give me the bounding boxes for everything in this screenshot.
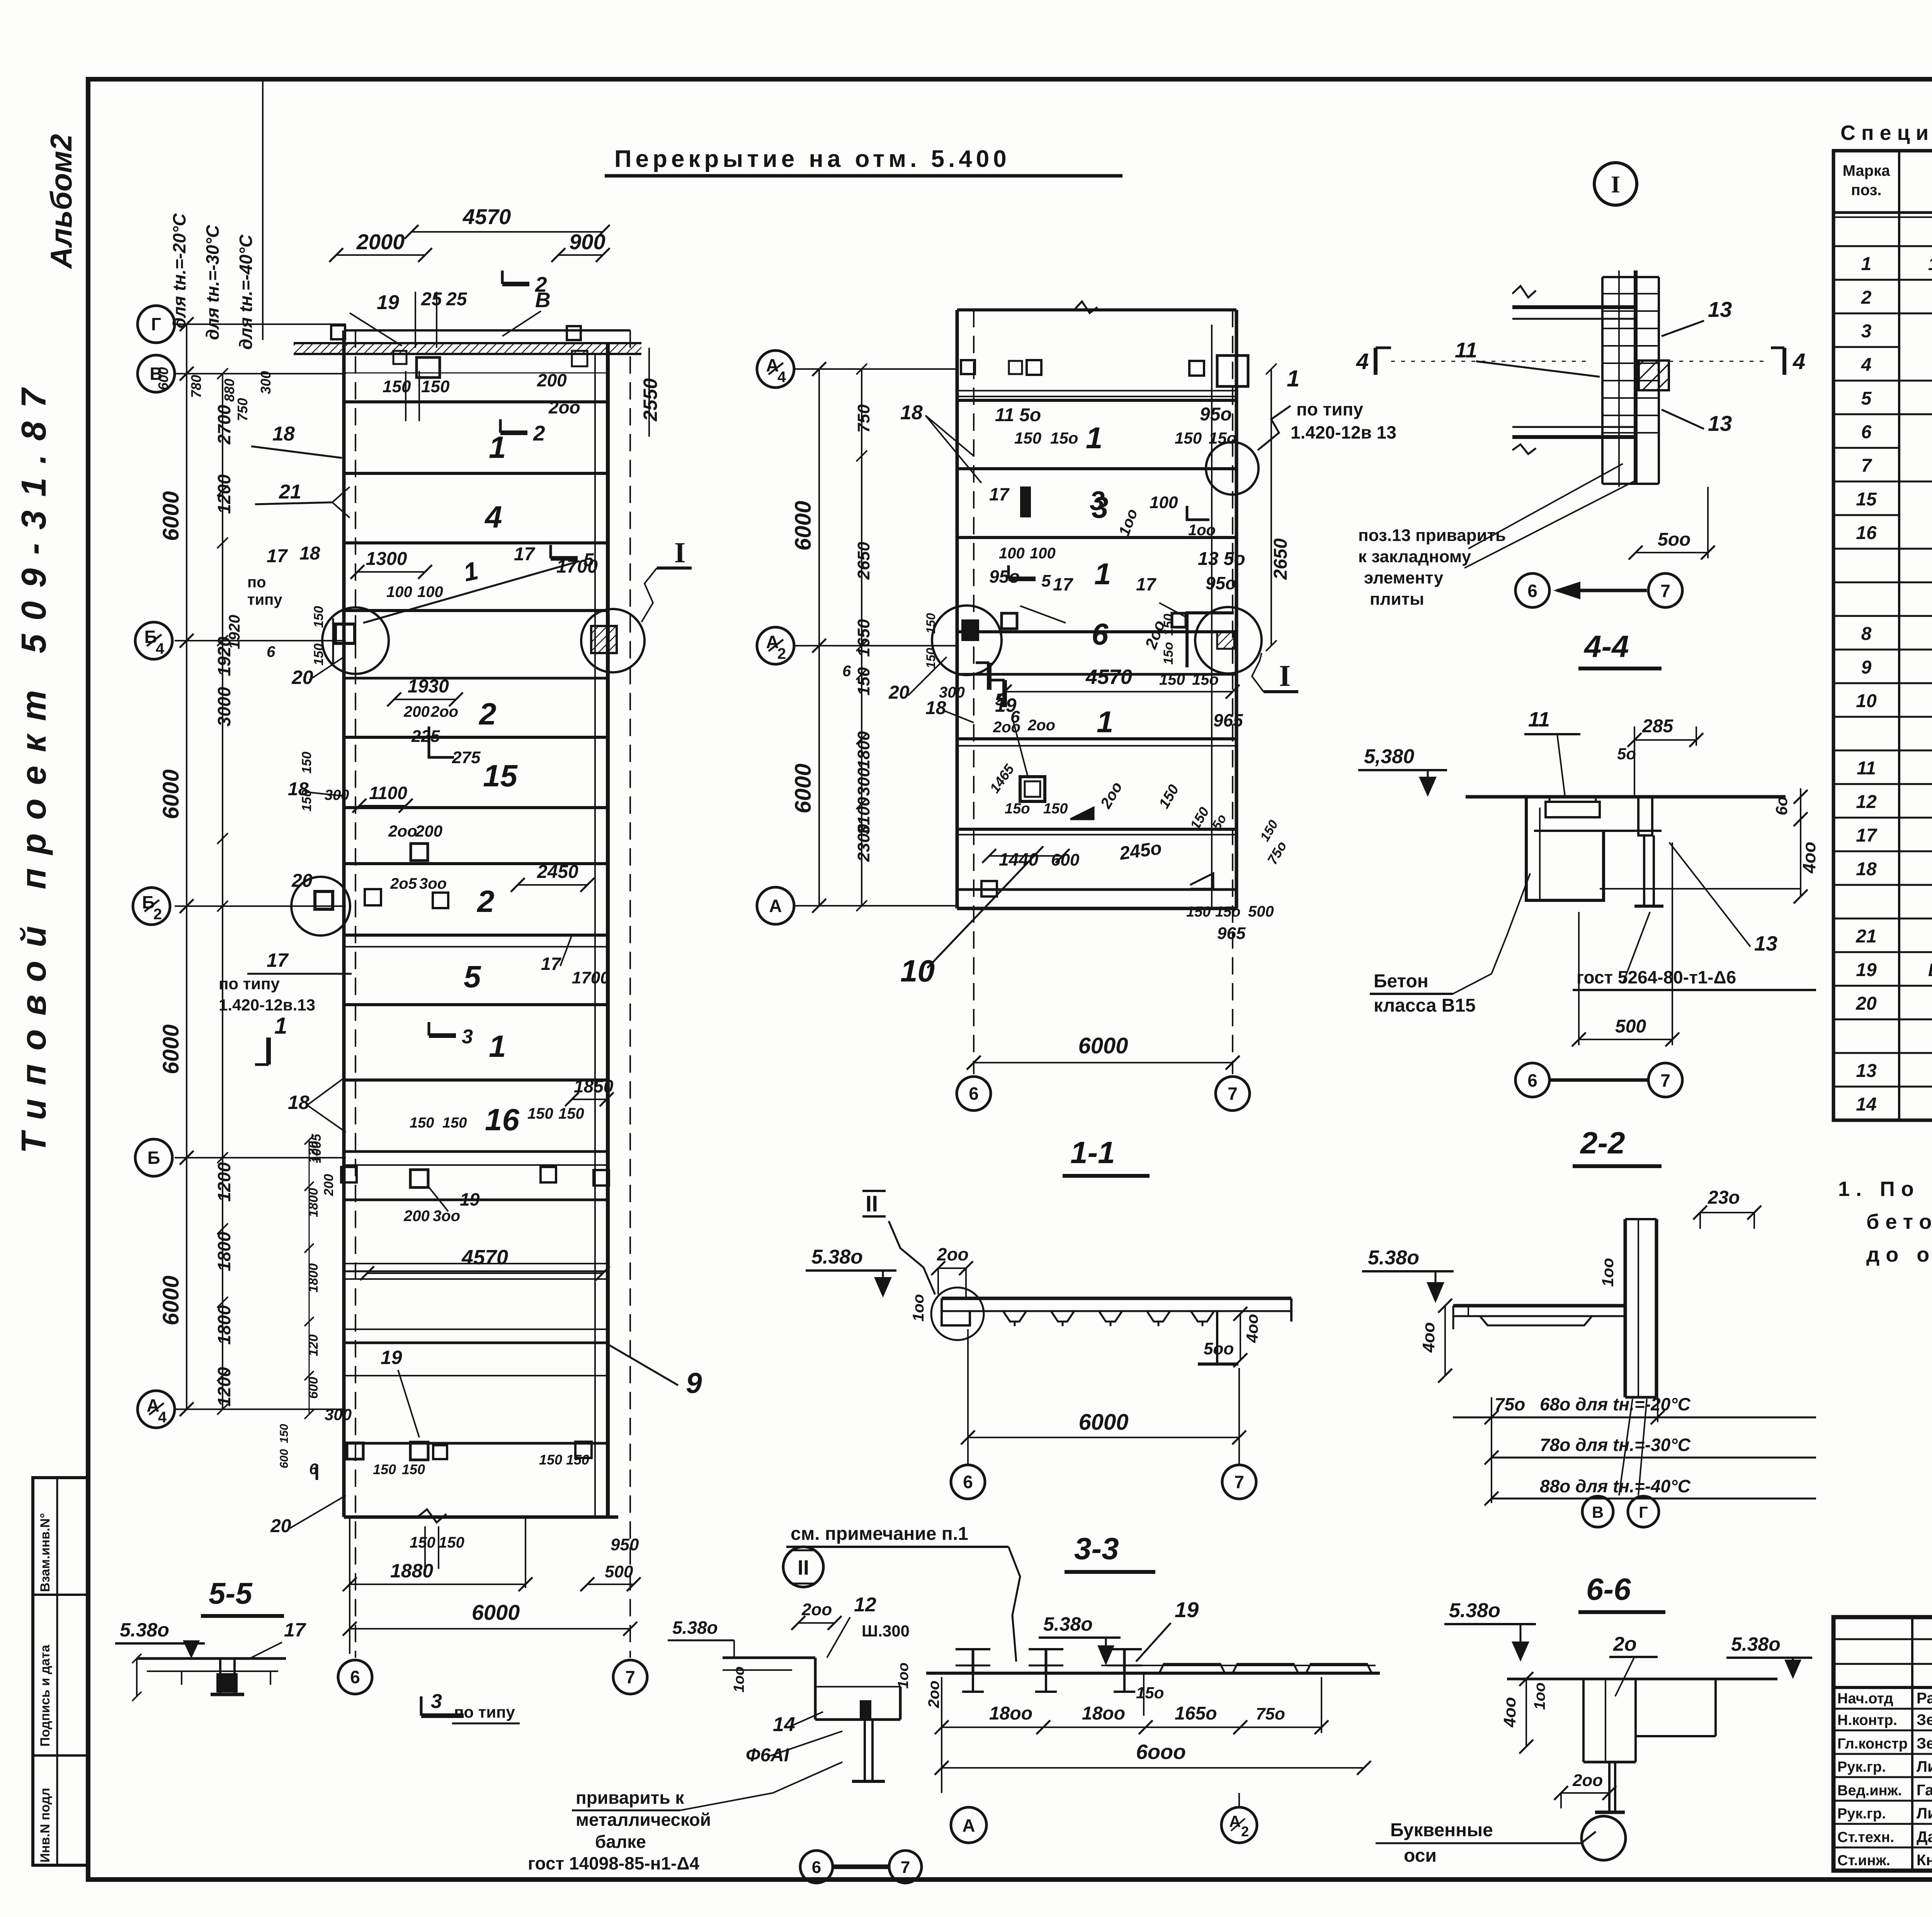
svg-text:9: 9 bbox=[686, 1367, 702, 1399]
svg-text:7: 7 bbox=[625, 1667, 635, 1687]
svg-text:19: 19 bbox=[377, 291, 399, 314]
svg-text:3: 3 bbox=[431, 1690, 442, 1713]
svg-text:10: 10 bbox=[1856, 691, 1877, 711]
middle plan: axis circle A/2 bbox=[757, 627, 794, 664]
section 1-1: detail II reference bbox=[862, 1191, 935, 1294]
section 5-5: elevation 5.380 bbox=[115, 1619, 205, 1658]
svg-text:18: 18 bbox=[299, 543, 320, 564]
svg-text:Бетон: Бетон bbox=[1374, 971, 1429, 992]
svg-text:Г: Г bbox=[151, 314, 161, 334]
section 4-4: dim 500 bottom bbox=[1572, 842, 1679, 1046]
svg-text:150: 150 bbox=[924, 648, 938, 668]
bukvennye osi note bbox=[1376, 1820, 1581, 1866]
section 2-2: circles V,G bbox=[1582, 1399, 1659, 1527]
svg-text:275: 275 bbox=[452, 748, 481, 767]
svg-text:2о: 2о bbox=[1613, 1633, 1637, 1655]
svg-text:к закладному: к закладному bbox=[1358, 547, 1471, 566]
detail I: slab lines bbox=[1512, 286, 1636, 454]
svg-text:2оо: 2оо bbox=[801, 1600, 832, 1619]
svg-text:75о: 75о bbox=[1256, 1704, 1285, 1723]
svg-text:Подпись и дата: Подпись и дата bbox=[38, 1644, 53, 1747]
left plan: axis lines bbox=[175, 324, 346, 1409]
svg-text:18: 18 bbox=[925, 698, 946, 718]
left plan: top dimensions bbox=[329, 204, 610, 348]
svg-text:15о: 15о bbox=[1192, 671, 1219, 688]
svg-text:11: 11 bbox=[1455, 338, 1477, 362]
svg-text:150: 150 bbox=[566, 1452, 589, 1468]
svg-text:150: 150 bbox=[1175, 429, 1202, 447]
svg-text:1440: 1440 bbox=[999, 849, 1039, 869]
svg-text:4570: 4570 bbox=[463, 204, 511, 229]
svg-text:6ооо: 6ооо bbox=[1136, 1740, 1186, 1764]
svg-text:2700: 2700 bbox=[214, 405, 234, 445]
svg-text:150: 150 bbox=[439, 1534, 464, 1551]
svg-text:до отм. 5.380.: до отм. 5.380. bbox=[1866, 1243, 1932, 1266]
svg-text:1оо: 1оо bbox=[895, 1662, 912, 1689]
svg-text:16: 16 bbox=[485, 1102, 519, 1137]
svg-text:6000: 6000 bbox=[791, 764, 816, 813]
svg-text:2: 2 bbox=[1861, 287, 1872, 308]
middle plan: embed square detail 19 bbox=[986, 761, 1182, 819]
svg-text:11: 11 bbox=[1528, 708, 1550, 731]
left plan: axis circle B bbox=[135, 1139, 172, 1176]
svg-text:13: 13 bbox=[1708, 297, 1732, 321]
svg-text:3-3: 3-3 bbox=[1074, 1531, 1119, 1566]
svg-text:1: 1 bbox=[1094, 557, 1111, 591]
svg-text:500: 500 bbox=[1248, 903, 1274, 920]
svg-text:18: 18 bbox=[288, 1092, 310, 1113]
svg-text:2000: 2000 bbox=[356, 230, 405, 254]
left plan: axis circle B/4 bbox=[135, 622, 172, 659]
svg-text:20: 20 bbox=[291, 667, 313, 688]
svg-text:5: 5 bbox=[464, 959, 481, 994]
svg-text:2: 2 bbox=[476, 884, 495, 919]
svg-text:19: 19 bbox=[1175, 1597, 1199, 1622]
left plan: dim 1300/100 cluster bbox=[247, 543, 598, 623]
svg-text:16: 16 bbox=[1856, 523, 1877, 543]
svg-text:6000: 6000 bbox=[158, 1276, 184, 1325]
svg-text:5.38о: 5.38о bbox=[1368, 1247, 1419, 1269]
svg-text:для tн.=-30°С: для tн.=-30°С bbox=[202, 225, 223, 340]
svg-text:1оо: 1оо bbox=[1599, 1258, 1617, 1287]
svg-text:900: 900 bbox=[569, 230, 605, 254]
title 6-6 bbox=[1578, 1572, 1665, 1612]
svg-text:по типу: по типу bbox=[1296, 399, 1363, 419]
svg-text:5.38о: 5.38о bbox=[1731, 1633, 1781, 1655]
svg-text:6: 6 bbox=[267, 643, 276, 660]
left plan: band 3/1 marks bbox=[410, 1022, 614, 1131]
section 3-3: hollow panels bbox=[1159, 1664, 1372, 1673]
svg-text:1-1: 1-1 bbox=[1070, 1135, 1115, 1170]
svg-text:1700: 1700 bbox=[572, 968, 610, 987]
svg-text:1.442.1-2 в 1: 1.442.1-2 в 1 bbox=[1928, 254, 1932, 274]
middle plan: axis circle A/4 bbox=[757, 350, 794, 388]
svg-text:4570: 4570 bbox=[461, 1246, 508, 1269]
svg-text:2: 2 bbox=[1241, 1823, 1249, 1839]
svg-text:6: 6 bbox=[1861, 422, 1872, 442]
detail I: axis circles 6,7 with arrow bbox=[1515, 573, 1682, 607]
section 3-3: I-beams bbox=[956, 1649, 1142, 1692]
left plan: axis circle A/4 bbox=[138, 1391, 175, 1428]
svg-text:5.38о: 5.38о bbox=[120, 1619, 169, 1641]
section 4-4: circles 6-7 bbox=[1515, 1063, 1682, 1097]
section 2-2: left dim 400 bbox=[1419, 1299, 1452, 1383]
title 3-3 bbox=[1065, 1531, 1155, 1572]
left plan: axis circle G bbox=[138, 306, 175, 343]
svg-text:3оо: 3оо bbox=[433, 1208, 460, 1225]
svg-text:2: 2 bbox=[777, 645, 786, 662]
svg-text:14: 14 bbox=[773, 1713, 795, 1736]
svg-text:150: 150 bbox=[383, 377, 411, 396]
svg-text:4: 4 bbox=[158, 1409, 167, 1426]
svg-text:150: 150 bbox=[410, 1534, 435, 1551]
svg-text:78о для tн.=-30°С: 78о для tн.=-30°С bbox=[1540, 1435, 1691, 1455]
svg-text:Инв.N подл: Инв.N подл bbox=[38, 1788, 53, 1863]
detail I: circle label bbox=[1594, 163, 1637, 205]
left plan: label 21 with leader bbox=[255, 481, 350, 518]
svg-text:165о: 165о bbox=[1175, 1703, 1217, 1724]
svg-text:1800: 1800 bbox=[214, 1305, 234, 1345]
section 4-4: label 11 bbox=[1524, 708, 1580, 796]
section 5-5: label 17 bbox=[251, 1619, 306, 1658]
svg-text:100: 100 bbox=[386, 583, 412, 600]
left plan: temperature variant labels bbox=[155, 79, 274, 421]
svg-text:17: 17 bbox=[1053, 574, 1074, 594]
general note text bbox=[1838, 1177, 1932, 1266]
specification table grid bbox=[1833, 151, 1932, 1120]
svg-text:4: 4 bbox=[1356, 349, 1369, 374]
svg-text:3: 3 bbox=[462, 1026, 473, 1048]
svg-text:для tн.=-20°С: для tн.=-20°С bbox=[169, 213, 189, 328]
svg-text:5: 5 bbox=[1861, 388, 1872, 409]
middle plan: 4570 dim row bbox=[976, 663, 1240, 726]
svg-text:20: 20 bbox=[291, 871, 313, 891]
left plan: upper annotation cluster bbox=[331, 325, 661, 445]
section 5-5: drawing bbox=[132, 1654, 286, 1701]
svg-text:2550: 2550 bbox=[639, 378, 661, 422]
svg-text:5оо: 5оо bbox=[1204, 1339, 1234, 1358]
left plan: axis circle V bbox=[138, 355, 175, 392]
svg-text:4оо: 4оо bbox=[1799, 842, 1819, 874]
svg-text:Н.контр.: Н.контр. bbox=[1837, 1712, 1897, 1728]
left plan: bottom dims bbox=[343, 1519, 641, 1654]
section 3-3: label 19 bbox=[1136, 1597, 1199, 1662]
svg-text:150: 150 bbox=[299, 789, 314, 811]
svg-text:6: 6 bbox=[1527, 581, 1537, 601]
svg-text:Буквенные: Буквенные bbox=[1390, 1820, 1493, 1840]
svg-text:150: 150 bbox=[924, 613, 938, 634]
svg-text:21: 21 bbox=[1855, 926, 1876, 947]
svg-text:3оо: 3оо bbox=[419, 875, 447, 892]
svg-text:поз.13 приварить: поз.13 приварить bbox=[1358, 526, 1506, 545]
section 1-1: circle 6 bbox=[951, 1465, 985, 1499]
svg-text:1.420-12в 13: 1.420-12в 13 bbox=[1291, 422, 1396, 442]
middle plan: A/2 detail left bbox=[888, 606, 1002, 703]
svg-text:Ф6АI: Ф6АI bbox=[746, 1745, 790, 1766]
svg-text:2оо: 2оо bbox=[1572, 1771, 1603, 1790]
svg-text:200: 200 bbox=[403, 1208, 430, 1225]
svg-text:2оо: 2оо bbox=[993, 719, 1020, 736]
section 3-3: elevation 5.380 right bbox=[1444, 1599, 1536, 1662]
section 2-2: slab bbox=[1453, 1306, 1625, 1329]
svg-text:300: 300 bbox=[325, 1405, 352, 1424]
sheet title bbox=[605, 146, 1122, 176]
svg-text:95о: 95о bbox=[1206, 573, 1236, 593]
svg-text:965: 965 bbox=[1213, 710, 1243, 730]
svg-text:120: 120 bbox=[306, 1141, 321, 1163]
svg-text:6000: 6000 bbox=[158, 769, 184, 819]
svg-text:300: 300 bbox=[325, 787, 349, 803]
svg-text:1оо: 1оо bbox=[731, 1666, 747, 1692]
specification table rows bbox=[1833, 246, 1932, 1087]
svg-text:по типу: по типу bbox=[219, 975, 280, 993]
middle plan: axis lines bbox=[793, 369, 958, 906]
left plan: top band thin line + break bbox=[345, 373, 607, 1522]
svg-text:I: I bbox=[1279, 659, 1291, 692]
svg-text:300: 300 bbox=[854, 767, 873, 796]
svg-text:6: 6 bbox=[1092, 617, 1109, 651]
svg-text:1930: 1930 bbox=[408, 676, 449, 697]
left plan: axis B squares row bbox=[309, 1133, 609, 1225]
svg-text:11: 11 bbox=[1857, 758, 1876, 779]
left plan: floor band lines bbox=[345, 402, 607, 1443]
svg-text:5.38о: 5.38о bbox=[672, 1618, 718, 1638]
title 4-4 bbox=[1578, 629, 1662, 668]
svg-text:150: 150 bbox=[421, 377, 450, 396]
svg-text:гост 14098-85-н1-Δ4: гост 14098-85-н1-Δ4 bbox=[528, 1853, 699, 1873]
svg-text:5: 5 bbox=[1041, 572, 1051, 590]
svg-text:15: 15 bbox=[483, 759, 518, 793]
svg-text:13: 13 bbox=[1754, 932, 1777, 955]
svg-text:150: 150 bbox=[558, 1105, 584, 1122]
left plan: B/2 detail area bbox=[219, 862, 610, 1014]
svg-text:поз.: поз. bbox=[1851, 182, 1881, 199]
svg-text:200: 200 bbox=[537, 370, 567, 390]
svg-text:20: 20 bbox=[270, 1516, 291, 1536]
svg-text:6000: 6000 bbox=[1078, 1410, 1128, 1435]
title 2-2 bbox=[1573, 1126, 1662, 1166]
svg-text:2оо: 2оо bbox=[548, 397, 580, 417]
left plan: secondary dim chain bbox=[214, 368, 234, 1415]
left plan: vertical dimension chain 6000 bbox=[158, 317, 194, 1416]
left plan: label 18 with leader bbox=[251, 423, 342, 458]
section 3-3: slab line bbox=[926, 1665, 1380, 1673]
svg-text:1оо: 1оо bbox=[1188, 522, 1216, 539]
svg-text:150: 150 bbox=[539, 1452, 562, 1468]
svg-text:Перекрытие на отм. 5.400: Перекрытие на отм. 5.400 bbox=[614, 146, 1010, 172]
svg-text:7: 7 bbox=[1660, 581, 1670, 601]
svg-text:Радько: Радько bbox=[1917, 1690, 1932, 1707]
svg-text:класса В15: класса В15 bbox=[1374, 995, 1476, 1016]
svg-text:2650: 2650 bbox=[854, 542, 873, 580]
svg-text:плиты: плиты bbox=[1370, 590, 1424, 609]
svg-text:2о5: 2о5 bbox=[390, 875, 417, 892]
svg-text:75о: 75о bbox=[1495, 1394, 1525, 1414]
svg-text:1: 1 bbox=[1086, 421, 1102, 455]
svg-text:Нач.отд: Нач.отд bbox=[1837, 1691, 1893, 1707]
left plan: axis circle 7 bottom bbox=[613, 1660, 647, 1694]
svg-text:5оо: 5оо bbox=[1658, 529, 1690, 550]
svg-text:25: 25 bbox=[446, 289, 468, 310]
svg-text:14: 14 bbox=[1856, 1094, 1876, 1115]
svg-text:приварить к: приварить к bbox=[576, 1788, 684, 1808]
svg-text:1: 1 bbox=[1097, 705, 1113, 739]
detail I: dim 500 bbox=[1629, 487, 1715, 560]
svg-text:150: 150 bbox=[442, 1115, 467, 1131]
left plan: section mark 1 left bbox=[255, 1013, 346, 1132]
svg-text:150: 150 bbox=[311, 606, 326, 628]
svg-text:150: 150 bbox=[410, 1115, 434, 1131]
svg-text:7: 7 bbox=[1861, 456, 1872, 476]
svg-text:780: 780 bbox=[188, 375, 204, 398]
svg-text:1200: 1200 bbox=[214, 1367, 234, 1407]
svg-text:11 5о: 11 5о bbox=[995, 405, 1041, 425]
svg-text:Зеленский: Зеленский bbox=[1917, 1735, 1932, 1752]
svg-text:Спецификация к перекрытию на: Спецификация к перекрытию на отм. 5.400 bbox=[1840, 121, 1932, 145]
svg-text:18: 18 bbox=[900, 401, 923, 424]
svg-text:600: 600 bbox=[306, 1377, 321, 1399]
svg-text:1: 1 bbox=[489, 430, 506, 464]
title 5-5 bbox=[201, 1576, 284, 1616]
svg-text:300: 300 bbox=[258, 371, 274, 394]
svg-text:15о: 15о bbox=[1161, 642, 1176, 665]
svg-text:17: 17 bbox=[989, 484, 1010, 504]
svg-text:6: 6 bbox=[842, 663, 851, 680]
left plan: panel number labels bbox=[464, 430, 702, 1399]
svg-text:1200: 1200 bbox=[214, 474, 234, 514]
svg-text:1. По верху монолитной плиты: 1. По верху монолитной плиты уложить лег… bbox=[1838, 1177, 1932, 1201]
svg-text:9: 9 bbox=[1861, 657, 1872, 678]
title 1-1 bbox=[1063, 1135, 1150, 1176]
svg-text:1850: 1850 bbox=[574, 1076, 614, 1096]
svg-text:по типу: по типу bbox=[454, 1703, 515, 1721]
svg-text:2-2: 2-2 bbox=[1580, 1126, 1625, 1160]
svg-text:1800: 1800 bbox=[306, 1263, 321, 1293]
svg-text:1880: 1880 bbox=[390, 1560, 433, 1582]
section 2-2: dim 230 bbox=[1693, 1187, 1761, 1229]
svg-text:4оо: 4оо bbox=[1500, 1697, 1519, 1728]
section 6-6: drawing bbox=[1507, 1679, 1777, 1812]
section 4-4: hanging beam bbox=[1526, 797, 1663, 906]
svg-text:5.38о: 5.38о bbox=[1043, 1613, 1093, 1635]
svg-text:Галактионова: Галактионова bbox=[1917, 1782, 1932, 1799]
svg-text:4-4: 4-4 bbox=[1583, 629, 1629, 663]
svg-text:Б: Б bbox=[147, 1148, 160, 1168]
svg-text:4: 4 bbox=[156, 640, 165, 657]
svg-text:15о: 15о bbox=[1050, 429, 1078, 447]
svg-text:А: А bbox=[769, 896, 782, 916]
svg-text:19: 19 bbox=[381, 1347, 402, 1368]
svg-text:150: 150 bbox=[1161, 614, 1176, 636]
svg-text:13: 13 bbox=[1708, 411, 1732, 435]
detail II: drawing bbox=[723, 1640, 900, 1781]
svg-text:15о: 15о bbox=[1005, 801, 1030, 817]
detail II: circle label bbox=[783, 1547, 823, 1587]
svg-text:2оо: 2оо bbox=[1027, 717, 1055, 734]
svg-text:Ст.техн.: Ст.техн. bbox=[1837, 1829, 1894, 1846]
bottom-left margin stamp block bbox=[33, 1478, 88, 1865]
svg-text:1200: 1200 bbox=[214, 1162, 234, 1202]
svg-text:4570: 4570 bbox=[1085, 665, 1132, 689]
svg-text:L400-6/76 вып.1: L400-6/76 вып.1 bbox=[1928, 960, 1932, 980]
svg-text:1: 1 bbox=[274, 1013, 287, 1039]
svg-text:6000: 6000 bbox=[158, 491, 184, 541]
svg-text:1300: 1300 bbox=[366, 549, 407, 569]
svg-text:100: 100 bbox=[417, 583, 443, 600]
svg-text:3: 3 bbox=[1861, 321, 1872, 342]
svg-text:150: 150 bbox=[1014, 429, 1041, 447]
svg-text:Рук.гр.: Рук.гр. bbox=[1837, 1759, 1886, 1775]
middle plan: outline bbox=[957, 301, 1236, 1074]
svg-text:200: 200 bbox=[415, 822, 442, 840]
detail II: labels 14 / F6AI bbox=[746, 1712, 842, 1766]
middle plan: row-3 annotations bbox=[989, 484, 1216, 539]
svg-text:15о: 15о bbox=[1215, 904, 1240, 920]
svg-text:2: 2 bbox=[533, 421, 545, 445]
middle plan: right dim chain 2650 bbox=[1266, 364, 1291, 651]
svg-text:1: 1 bbox=[1287, 366, 1299, 391]
left plan: label 19 lower bbox=[325, 1347, 419, 1437]
svg-text:1.420-12в.13: 1.420-12в.13 bbox=[219, 996, 315, 1014]
svg-text:Г: Г bbox=[1639, 1503, 1648, 1521]
title block frame bbox=[1833, 1617, 1932, 1871]
svg-text:18: 18 bbox=[1856, 859, 1877, 879]
svg-text:2оо: 2оо bbox=[937, 1244, 969, 1264]
svg-text:17: 17 bbox=[267, 949, 289, 971]
svg-text:8: 8 bbox=[1861, 624, 1872, 644]
middle plan: row-1 annotations bbox=[989, 545, 1245, 629]
svg-text:68о для tн.=-20°С: 68о для tн.=-20°С bbox=[1540, 1394, 1691, 1414]
svg-text:150: 150 bbox=[527, 1105, 553, 1122]
svg-text:23о: 23о bbox=[1708, 1187, 1740, 1208]
svg-text:17: 17 bbox=[284, 1619, 306, 1641]
svg-text:I: I bbox=[674, 537, 685, 569]
left plan: axis A/4 squares row bbox=[278, 1424, 592, 1480]
svg-text:950: 950 bbox=[611, 1535, 639, 1554]
section 3-3: elevation 5.380 left bbox=[1039, 1613, 1121, 1665]
svg-text:13 5о: 13 5о bbox=[1198, 549, 1245, 569]
svg-text:600: 600 bbox=[155, 367, 171, 390]
svg-text:4: 4 bbox=[1861, 355, 1872, 375]
svg-text:7: 7 bbox=[901, 1858, 910, 1877]
section 6-6: label 20 bbox=[1609, 1633, 1658, 1696]
svg-text:600: 600 bbox=[1051, 850, 1080, 869]
svg-text:Рук.гр.: Рук.гр. bbox=[1837, 1806, 1886, 1822]
svg-text:19: 19 bbox=[995, 694, 1017, 716]
section 2-2: elevation 5.380 bbox=[1362, 1247, 1454, 1303]
middle plan: axis circle 6 bbox=[957, 1077, 991, 1111]
svg-text:1: 1 bbox=[489, 1029, 506, 1063]
svg-text:12: 12 bbox=[1856, 792, 1877, 812]
section 1-1: dim 200 bbox=[931, 1244, 973, 1298]
svg-text:150: 150 bbox=[311, 643, 326, 665]
svg-text:балке: балке bbox=[595, 1832, 646, 1852]
left plan: mark 3 po tipu bbox=[421, 1690, 520, 1723]
svg-text:6: 6 bbox=[969, 1084, 979, 1104]
svg-text:4: 4 bbox=[1793, 349, 1805, 374]
svg-text:500: 500 bbox=[1615, 1016, 1646, 1037]
svg-text:элементу: элементу bbox=[1364, 568, 1444, 587]
middle plan: A/2 detail right bbox=[1141, 607, 1262, 674]
svg-text:95о: 95о bbox=[1200, 404, 1232, 425]
svg-text:100: 100 bbox=[999, 545, 1025, 562]
svg-text:Гл.констр: Гл.констр bbox=[1837, 1736, 1908, 1752]
svg-text:Лисунов: Лисунов bbox=[1917, 1758, 1932, 1775]
specification table header bbox=[1843, 159, 1932, 212]
svg-text:10: 10 bbox=[900, 954, 935, 988]
section 1-1: circle 7 bbox=[1222, 1465, 1256, 1499]
svg-text:3: 3 bbox=[1090, 486, 1105, 516]
